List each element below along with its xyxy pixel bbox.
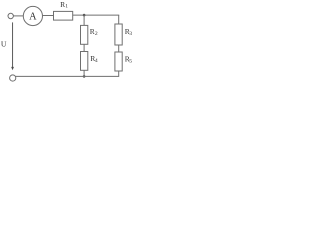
ammeter A [23, 6, 42, 25]
wire: ammeter to R1 [43, 15, 54, 17]
wire: junction down to R2 [83, 15, 85, 26]
resistor R4 [81, 52, 88, 71]
voltage arrowhead [11, 67, 14, 70]
svg-text:2: 2 [95, 31, 98, 37]
svg-text:5: 5 [129, 58, 132, 64]
voltage arrow shaft [12, 22, 14, 67]
node: top junction [83, 14, 86, 17]
wire: R4 to bottom junction [83, 70, 85, 76]
svg-text:4: 4 [95, 58, 98, 64]
node: bottom junction [83, 75, 86, 78]
terminal (bottom-left) [10, 75, 16, 81]
resistor R1 [54, 11, 73, 20]
wire: terminal to ammeter [13, 15, 23, 17]
svg-text:3: 3 [129, 31, 132, 37]
wire: R2 to R4 [83, 44, 85, 51]
wire: R5 down, bottom wire to terminal [16, 71, 119, 76]
resistor R3 [115, 24, 122, 45]
terminal (top-left) [8, 13, 13, 18]
wire: R3 to R5 [118, 45, 120, 52]
resistor R5 [115, 52, 122, 71]
svg-text:U: U [1, 40, 7, 49]
resistor R2 [81, 25, 88, 44]
wire: R1 to right corner [73, 14, 120, 16]
svg-text:A: A [29, 11, 37, 22]
wire: top-right corner down to R3 [118, 15, 120, 24]
svg-text:1: 1 [65, 4, 68, 10]
